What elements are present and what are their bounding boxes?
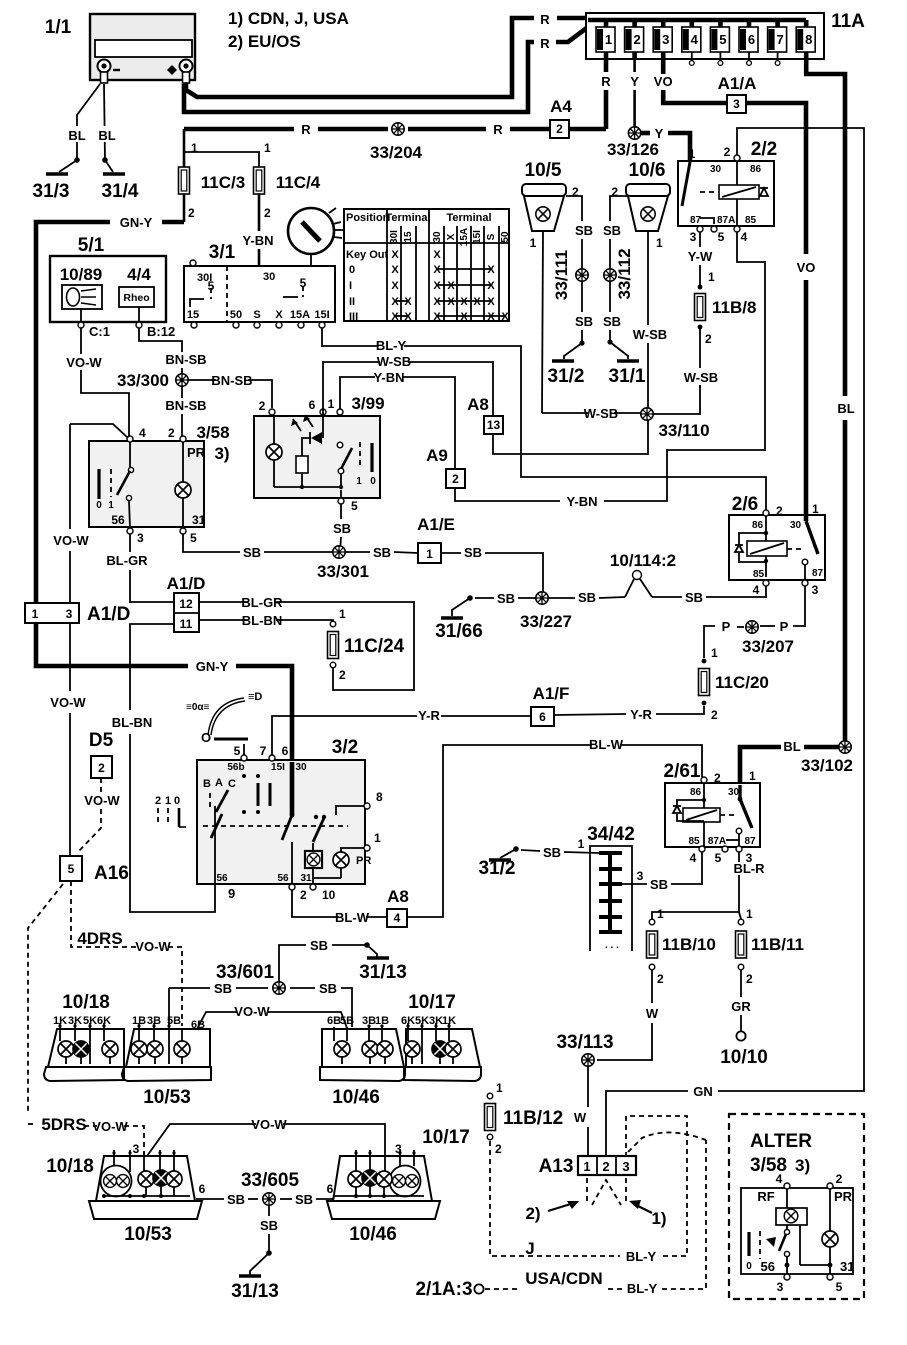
svg-text:33/113: 33/113 (556, 1032, 613, 1053)
svg-text:10/89: 10/89 (60, 265, 103, 284)
svg-text:33/605: 33/605 (241, 1170, 300, 1191)
svg-text:X: X (433, 296, 441, 308)
connector D5 pin 2 (89, 730, 114, 778)
svg-text:2: 2 (495, 1142, 502, 1156)
splice 33/102 (801, 741, 853, 775)
svg-text:1: 1 (578, 837, 585, 851)
fuse 11C/4 (184, 141, 321, 266)
connector A8 pin 13 (467, 395, 503, 434)
svg-text:6: 6 (282, 744, 289, 758)
svg-text:6: 6 (539, 710, 546, 724)
svg-text:5/1: 5/1 (78, 235, 105, 256)
svg-text:2/6: 2/6 (732, 494, 758, 515)
connector A9 pin 2 (426, 446, 465, 488)
wire BL-GR from 3/58 pin 3 to A1/D pin 12 (106, 534, 174, 602)
svg-text:33/301: 33/301 (317, 562, 369, 581)
wire Y-BN from 3/99 pin 1 to A9 (340, 370, 455, 469)
svg-text:5DRS: 5DRS (41, 1115, 86, 1134)
svg-text:PR: PR (356, 855, 371, 867)
svg-text:2): 2) (525, 1204, 540, 1223)
wire fuse1 R down to A4 line (601, 59, 611, 129)
svg-text:9: 9 (228, 886, 235, 901)
svg-text:W: W (646, 1006, 659, 1021)
svg-text:31/2: 31/2 (479, 858, 516, 879)
ignition position table (344, 209, 511, 323)
fuse 6 in 11A (739, 20, 758, 65)
svg-text:X: X (433, 280, 441, 292)
svg-text:III: III (349, 311, 358, 323)
wire fuse3 VO down to A1/A (654, 59, 727, 103)
svg-text:3: 3 (66, 607, 73, 621)
svg-text:BN-SB: BN-SB (165, 398, 206, 413)
svg-text:31/13: 31/13 (359, 962, 407, 983)
inline connector 10/114:2 (610, 551, 676, 597)
svg-text:3): 3) (214, 444, 229, 463)
ground 31/66 with SB wire (435, 591, 536, 642)
svg-text:30: 30 (295, 762, 307, 773)
svg-text:BN-SB: BN-SB (165, 352, 206, 367)
svg-text:2: 2 (264, 206, 271, 220)
wire VO-W 10/53 6B to 10/46 5B (197, 1004, 347, 1029)
svg-text:2: 2 (633, 32, 640, 47)
svg-text:A8: A8 (387, 887, 409, 906)
svg-text:1: 1 (689, 147, 696, 161)
wire BN-SB splice to 3/99 pin 2 (188, 373, 272, 408)
svg-text:1: 1 (583, 1159, 590, 1174)
svg-text:BL: BL (783, 739, 800, 754)
svg-text:5: 5 (190, 531, 197, 545)
svg-text:10/5: 10/5 (525, 160, 562, 181)
connector A1/F pin 6 (531, 684, 569, 726)
svg-text:31/2: 31/2 (548, 366, 585, 387)
pin B:12 of 5/1 (136, 307, 175, 339)
svg-text:BL-BN: BL-BN (112, 715, 152, 730)
svg-text:5: 5 (351, 499, 358, 513)
lamp unit 10/5 (522, 160, 579, 250)
arrow 2) (525, 1201, 579, 1223)
switch 3/99 (254, 394, 385, 513)
wire SB from 10/6 pin2 to ground 31/1 via splice 33/112 (603, 196, 646, 387)
svg-text:30: 30 (790, 520, 802, 531)
svg-text:C: C (228, 778, 236, 790)
svg-text:10/18: 10/18 (46, 1156, 94, 1177)
dashed J harness box (490, 1116, 687, 1264)
svg-text:A16: A16 (94, 863, 129, 884)
svg-text:2/61: 2/61 (664, 761, 701, 782)
headlamp module 10/53 4DRS (122, 1015, 211, 1108)
svg-text:SB: SB (295, 1192, 313, 1207)
svg-text:11B/10: 11B/10 (662, 935, 716, 954)
svg-text:3: 3 (637, 869, 644, 883)
headlamp module 10/18 4DRS (44, 992, 124, 1081)
svg-text:1: 1 (496, 1081, 503, 1095)
fuse 7 in 11A (768, 20, 787, 65)
svg-text:2: 2 (259, 399, 266, 413)
svg-text:VO-W: VO-W (251, 1117, 287, 1132)
svg-text:30I: 30I (389, 230, 400, 244)
svg-text:S: S (253, 309, 260, 321)
svg-text:4: 4 (394, 911, 401, 925)
svg-text:2: 2 (98, 761, 105, 775)
svg-text:BL-Y: BL-Y (626, 1249, 657, 1264)
svg-text:86: 86 (690, 787, 702, 798)
svg-text:1: 1 (356, 476, 362, 487)
svg-text:85: 85 (688, 836, 700, 847)
svg-text:X: X (487, 264, 495, 276)
svg-text:1: 1 (165, 795, 171, 807)
svg-text:4: 4 (741, 230, 748, 244)
svg-text:2: 2 (188, 206, 195, 220)
svg-text:31/1: 31/1 (609, 366, 646, 387)
splice 33/301 (317, 546, 369, 581)
svg-text:5: 5 (836, 1280, 843, 1294)
wire BL-BN from A1/D 11 to 11C/24 pin 1 (199, 613, 333, 628)
svg-text:R: R (601, 74, 611, 89)
svg-text:VO: VO (797, 260, 816, 275)
svg-text:33/110: 33/110 (658, 421, 709, 440)
wire 10/6 pin1 W-SB down to splice 33/110 (633, 231, 667, 408)
svg-text:X: X (391, 280, 399, 292)
svg-text:33/126: 33/126 (607, 140, 659, 159)
svg-text:3/2: 3/2 (332, 737, 358, 758)
splice 33/601 with SB wires (169, 938, 367, 1027)
svg-text:BL: BL (837, 401, 854, 416)
svg-text:31/3: 31/3 (33, 181, 70, 202)
svg-text:≡D: ≡D (248, 691, 262, 703)
svg-text:SB: SB (578, 590, 596, 605)
svg-text:33/112: 33/112 (615, 248, 634, 299)
svg-text:33/300: 33/300 (117, 371, 169, 390)
svg-text:1) CDN, J, USA: 1) CDN, J, USA (228, 9, 349, 28)
svg-text:56: 56 (216, 873, 228, 884)
pin C:1 of 5/1 (78, 309, 110, 339)
svg-text:SB: SB (214, 981, 232, 996)
ground bus 34/42 (587, 824, 635, 951)
svg-text:2: 2 (452, 472, 459, 486)
svg-text:C:1: C:1 (89, 324, 110, 339)
svg-text:BL-W: BL-W (335, 910, 370, 925)
svg-text:X: X (433, 311, 441, 323)
svg-text:2: 2 (714, 771, 721, 785)
svg-text:Y: Y (655, 126, 664, 141)
wire SB from 34/42 pin 3 to 2/61 pin 4 (622, 852, 702, 892)
headlamp module 10/17 10/46 5DRS (327, 1127, 470, 1245)
splice 33/126 (607, 127, 659, 159)
svg-text:0: 0 (746, 1261, 752, 1272)
svg-text:VO-W: VO-W (66, 355, 102, 370)
svg-text:Y: Y (630, 74, 639, 89)
svg-text:3/1: 3/1 (209, 242, 236, 263)
svg-text:II: II (349, 296, 355, 308)
wire W-SB horizontal through splice 33/110 (542, 385, 700, 421)
svg-text:2: 2 (705, 332, 712, 346)
svg-text:2: 2 (711, 708, 718, 722)
fuse 3 in 11A (653, 20, 672, 59)
fuse 11B/10 (647, 907, 716, 986)
svg-text:X: X (460, 296, 468, 308)
svg-text:SB: SB (685, 590, 703, 605)
svg-text:5: 5 (68, 862, 75, 876)
wire GN-Y left trunk (36, 215, 292, 762)
svg-text:33/227: 33/227 (520, 612, 572, 631)
svg-text:USA/CDN: USA/CDN (525, 1269, 602, 1288)
headlamp module 10/17 4DRS (401, 992, 481, 1081)
svg-text:R: R (493, 122, 503, 137)
splice 33/110 (641, 408, 710, 440)
svg-text:1: 1 (264, 141, 271, 155)
svg-text:11: 11 (180, 617, 193, 631)
svg-text:4: 4 (691, 32, 699, 47)
svg-text:X: X (391, 311, 399, 323)
svg-text:A1/D: A1/D (167, 574, 206, 593)
svg-text:SB: SB (227, 1192, 245, 1207)
legend note 1) 2) (228, 9, 349, 51)
svg-text:X: X (391, 296, 399, 308)
svg-text:SB: SB (464, 545, 482, 560)
svg-text:X: X (433, 249, 441, 261)
svg-text:11C/24: 11C/24 (344, 636, 405, 657)
wire BL-Y from 3/1 pin 15I to relay 2/6 pin 2 (322, 328, 766, 510)
connector A1/A pin 3 (718, 74, 757, 113)
wire 5DRS dashed VO-W from A16 to 10/18 (28, 884, 144, 1155)
svg-text:1: 1 (656, 236, 663, 250)
wire BL-W from 3/2 pin 2 to A8 pin 4 (292, 890, 387, 925)
svg-text:BL-BN: BL-BN (242, 613, 282, 628)
svg-text:7: 7 (260, 744, 267, 758)
wire fuse2 Y down to splice 33/126 (630, 59, 639, 127)
svg-text:VO-W: VO-W (234, 1004, 270, 1019)
ground 31/4 (102, 160, 139, 202)
svg-text:SB: SB (575, 314, 593, 329)
svg-text:56: 56 (277, 873, 289, 884)
svg-text:2: 2 (339, 668, 346, 682)
svg-text:0: 0 (96, 500, 102, 511)
svg-text:X: X (447, 280, 455, 292)
svg-text:X: X (447, 296, 455, 308)
wire 4DRS dashed VO-W from A16 to 10/53 (71, 881, 182, 1026)
svg-text:A13: A13 (539, 1156, 574, 1177)
svg-text:A1/A: A1/A (718, 74, 757, 93)
svg-text:X: X (404, 296, 412, 308)
svg-text:Position: Position (346, 212, 390, 224)
svg-text:B: B (203, 778, 211, 790)
svg-text:33/204: 33/204 (370, 143, 423, 162)
svg-text:1: 1 (530, 236, 537, 250)
svg-text:4: 4 (776, 1172, 783, 1186)
svg-text:5: 5 (234, 744, 241, 758)
wire W-SB from 11B/8 down to splice line (684, 329, 718, 388)
svg-text:A4: A4 (550, 97, 572, 116)
fuse 11B/8 (695, 294, 757, 347)
fuse 8 in 11A (796, 20, 815, 59)
wire BL-BN from A1/D 11 left down to 3/2 pin 9 (112, 624, 215, 912)
svg-text:31/4: 31/4 (102, 181, 139, 202)
svg-text:6: 6 (327, 1182, 334, 1196)
wire battery minus to grounds, BL labels (66, 84, 118, 163)
svg-text:W: W (574, 1110, 587, 1125)
wire BL-GR from A1/D 12 loop to 11C/24 pin 2 (199, 595, 414, 690)
svg-text:10: 10 (322, 888, 336, 902)
wire VO-W from C:1 to 3/58 pin 4 (66, 328, 129, 436)
svg-text:SB: SB (373, 545, 391, 560)
svg-text:6: 6 (199, 1182, 206, 1196)
svg-text:A8: A8 (467, 395, 489, 414)
wire VO-W through A1/D pin 3 down to A16 (50, 424, 89, 856)
svg-text:BL-Y: BL-Y (627, 1281, 658, 1296)
svg-text:VO-W: VO-W (50, 695, 86, 710)
svg-text:RF: RF (757, 1189, 774, 1204)
svg-text:5: 5 (718, 230, 725, 244)
svg-text:4: 4 (690, 851, 697, 865)
svg-text:1/1: 1/1 (45, 17, 72, 38)
svg-text:X: X (501, 311, 509, 323)
svg-text:30: 30 (432, 231, 443, 243)
svg-text:34/42: 34/42 (587, 824, 635, 845)
svg-text:VO-W: VO-W (84, 793, 120, 808)
fuse 11B/11 (736, 907, 804, 986)
svg-text:GN-Y: GN-Y (120, 215, 153, 230)
svg-text:1: 1 (812, 502, 819, 516)
wire SB from 10/5 pin2 to ground 31/2 via splice 33/111 (548, 196, 594, 387)
svg-text:X: X (391, 249, 399, 261)
svg-text:SB: SB (603, 223, 621, 238)
wire 10/5 pin1 down to W-SB line (542, 231, 543, 413)
svg-text:X: X (487, 311, 495, 323)
svg-text:30: 30 (263, 271, 275, 283)
wire SB from 3/99 pin 5 to splice 33/301 (333, 504, 351, 552)
svg-text:31: 31 (192, 513, 206, 527)
svg-text:O: O (201, 730, 211, 745)
svg-text:6: 6 (748, 32, 755, 47)
svg-text:W-SB: W-SB (633, 327, 667, 342)
splice 33/113 (556, 1032, 613, 1066)
svg-text:10/6: 10/6 (629, 160, 666, 181)
svg-text:2: 2 (746, 972, 753, 986)
svg-text:10/17: 10/17 (408, 992, 456, 1013)
svg-text:11C/20: 11C/20 (715, 673, 769, 692)
svg-text:15I: 15I (314, 309, 329, 321)
svg-text:0: 0 (349, 264, 355, 276)
svg-text:SB: SB (650, 877, 668, 892)
svg-text:50: 50 (500, 231, 511, 243)
relay 2/2 (678, 139, 777, 244)
ignition key symbol (288, 208, 344, 266)
svg-text:Y-W: Y-W (688, 249, 713, 264)
lamp unit 10/6 (611, 160, 670, 250)
terminal 2/1A:3 with USA/CDN dashed wire (415, 1132, 706, 1300)
dashed alternate wiring below A13 (587, 1178, 626, 1205)
svg-text:A1/F: A1/F (533, 684, 570, 703)
wire W from splice 33/113 to A13 pin 1 (574, 1066, 588, 1155)
svg-text:SB: SB (497, 591, 515, 606)
fuse 1 in 11A (596, 20, 615, 59)
svg-text:≡0α≡: ≡0α≡ (186, 702, 210, 713)
svg-text:2: 2 (602, 1159, 609, 1174)
svg-text:X: X (487, 280, 495, 292)
svg-text:56b: 56b (227, 762, 244, 773)
svg-text:1: 1 (32, 607, 39, 621)
svg-text:5: 5 (719, 32, 726, 47)
wire battery plus R feed lower (184, 27, 588, 112)
svg-text:W-SB: W-SB (584, 406, 618, 421)
svg-text:SB: SB (310, 938, 328, 953)
fuse 11C/20 (699, 646, 769, 722)
wire W from 11B/10 to splice 33/113 (597, 970, 659, 1060)
svg-text:R: R (540, 12, 550, 27)
svg-text:X: X (487, 296, 495, 308)
splice 33/207 (742, 621, 794, 656)
svg-text:87A: 87A (717, 215, 735, 226)
wire SB from 3/58 pin 5 to 33/301 and A1/E to 33/227 (183, 534, 543, 592)
svg-text:56: 56 (761, 1259, 775, 1274)
ground 31/13 upper (359, 942, 407, 983)
svg-text:4DRS: 4DRS (77, 929, 122, 948)
position icon 2 1 0 left of 3/2 (155, 795, 186, 827)
fuse 4 in 11A (682, 20, 701, 65)
svg-text:11B/8: 11B/8 (712, 298, 756, 317)
fuse 11B/12 (485, 1081, 564, 1156)
svg-text:X: X (473, 296, 481, 308)
svg-text:R: R (301, 122, 311, 137)
svg-text:SB: SB (543, 845, 561, 860)
svg-text:15I: 15I (271, 762, 285, 773)
svg-text:10/18: 10/18 (62, 992, 110, 1013)
svg-text:1: 1 (374, 831, 381, 845)
connector A1/E pin 1 (417, 515, 455, 563)
svg-text:12: 12 (179, 597, 193, 611)
wire fuse8 BL down right side to splice 33/102 (806, 59, 855, 747)
svg-text:PR: PR (834, 1189, 853, 1204)
svg-text:10/10: 10/10 (720, 1047, 768, 1068)
svg-text:I: I (349, 280, 352, 292)
svg-text:X: X (433, 264, 441, 276)
svg-text:10/17: 10/17 (422, 1127, 470, 1148)
relay 2/61 (664, 761, 760, 865)
svg-text:VO-W: VO-W (92, 1119, 128, 1134)
svg-text:0: 0 (370, 476, 376, 487)
svg-text:1: 1 (746, 907, 753, 921)
svg-text:Y-BN: Y-BN (566, 494, 597, 509)
svg-text:8: 8 (805, 32, 812, 47)
svg-text:11B/12: 11B/12 (503, 1108, 563, 1129)
svg-text:GN: GN (693, 1084, 713, 1099)
svg-text:X: X (404, 311, 412, 323)
svg-text:3: 3 (662, 32, 669, 47)
svg-text:30: 30 (728, 787, 740, 798)
svg-text:2: 2 (657, 972, 664, 986)
svg-text:SB: SB (243, 545, 261, 560)
svg-text:3: 3 (733, 97, 740, 111)
svg-text:3: 3 (777, 1280, 784, 1294)
svg-text:10/46: 10/46 (332, 1087, 380, 1108)
svg-text:1: 1 (708, 270, 715, 284)
svg-text:R: R (540, 36, 550, 51)
wire BN-SB from B:12 to splice 33/300 (139, 328, 207, 374)
svg-text:10/46: 10/46 (349, 1224, 397, 1245)
svg-text:10/53: 10/53 (124, 1224, 172, 1245)
svg-text:BL: BL (68, 128, 85, 143)
wire GN from 2/2 pin 2 down right edge to A13 pin 2 (606, 128, 864, 1155)
connector A8 pin 4 (387, 887, 409, 927)
svg-text:2/2: 2/2 (751, 139, 777, 160)
svg-text:BL-W: BL-W (589, 737, 624, 752)
ignition switch 3/1 (184, 242, 335, 328)
svg-text:2/1A:3: 2/1A:3 (415, 1279, 472, 1300)
svg-text:2) EU/OS: 2) EU/OS (228, 32, 301, 51)
wire BN-SB splice to 3/58 pin 2 (165, 386, 206, 436)
light switch 3/2 (197, 737, 383, 902)
svg-text:2: 2 (724, 145, 731, 159)
